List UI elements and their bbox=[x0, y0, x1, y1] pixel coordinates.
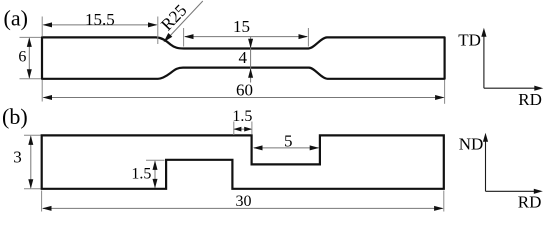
dimension 1.5 top bbox=[235, 128, 252, 130]
svg-text:RD: RD bbox=[518, 193, 542, 212]
dimension 60 bbox=[44, 97, 444, 99]
leader R25 bbox=[169, 1, 203, 38]
extension lines for 6 bbox=[20, 36, 42, 38]
extension line left edge up bbox=[41, 17, 43, 37]
svg-text:(b): (b) bbox=[2, 104, 28, 129]
dimension 4 vertical line bbox=[250, 37, 252, 83]
axes (b): ND / RD bbox=[485, 136, 487, 191]
extension line for 1.5 left step bbox=[146, 159, 165, 161]
svg-text:(a): (a) bbox=[4, 5, 28, 30]
svg-text:15: 15 bbox=[233, 17, 250, 36]
dimension 1.5 left bbox=[154, 161, 156, 187]
dimension 30 bbox=[43, 207, 443, 209]
dimension 5 bbox=[254, 147, 319, 149]
svg-text:TD: TD bbox=[458, 31, 481, 50]
svg-text:15.5: 15.5 bbox=[85, 10, 115, 29]
svg-text:30: 30 bbox=[236, 193, 252, 210]
extension lines for 15 bbox=[183, 28, 185, 47]
svg-text:RD: RD bbox=[518, 90, 542, 109]
axes (a): TD / RD bbox=[483, 31, 485, 88]
svg-text:1.5: 1.5 bbox=[131, 166, 151, 183]
svg-text:3: 3 bbox=[13, 148, 22, 167]
svg-text:6: 6 bbox=[18, 49, 26, 66]
extension line for 15.5 right bbox=[157, 17, 159, 45]
dimension 6 bbox=[28, 38, 30, 77]
dimension 3 bbox=[30, 136, 32, 187]
extension lines for 1.5 top bbox=[233, 122, 235, 136]
svg-text:4: 4 bbox=[238, 48, 247, 67]
specimen (a) dog-bone outline bbox=[42, 37, 445, 78]
dimension 15.5 bbox=[44, 24, 157, 26]
svg-text:5: 5 bbox=[284, 131, 293, 150]
svg-text:60: 60 bbox=[236, 80, 253, 99]
svg-text:R25: R25 bbox=[157, 1, 190, 35]
extension lines for 30 bbox=[41, 191, 43, 212]
svg-text:ND: ND bbox=[459, 135, 484, 154]
svg-text:1.5: 1.5 bbox=[232, 108, 252, 125]
extension lines for 3 bbox=[24, 134, 41, 136]
specimen (b) stepped outline bbox=[42, 135, 444, 188]
extension lines for 60 bbox=[41, 80, 43, 102]
dimension 15 bbox=[185, 36, 307, 38]
